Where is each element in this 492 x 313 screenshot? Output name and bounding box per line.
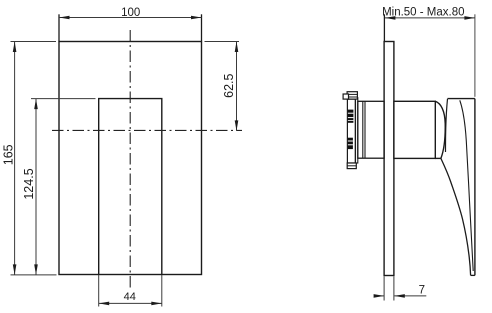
dimension 44 (handle width, bottom) [99, 275, 162, 307]
lever blade upper-left edge [445, 99, 447, 152]
bracket rear knob [343, 94, 348, 99]
bracket top cap [347, 92, 357, 99]
valve body cylinder behind plate [358, 101, 384, 158]
svg-text:165: 165 [1, 144, 15, 165]
mounting bracket bar [347, 99, 355, 163]
lever blade right edge [474, 99, 476, 276]
svg-text:Min.50 - Max.80: Min.50 - Max.80 [382, 6, 464, 18]
dimension 7 (plate thickness) [374, 276, 427, 300]
svg-text:7: 7 [419, 285, 425, 297]
cartridge strip [356, 98, 358, 163]
lever blade bottom tip [471, 274, 475, 276]
wall plate (side view, 7mm thick) [384, 42, 394, 276]
dimension 124.5 (handle height) [22, 99, 95, 275]
dimension 100 (top width) [59, 7, 202, 41]
dimension Min.50 - Max.80 [382, 6, 475, 97]
svg-text:124.5: 124.5 [22, 168, 36, 199]
hub nose bulge [435, 101, 445, 158]
handle plate (front view inner rectangle) [99, 99, 162, 275]
screw detail lower [348, 138, 353, 149]
svg-text:100: 100 [121, 7, 140, 19]
lever blade top edge [448, 98, 475, 100]
horizontal centerline [52, 129, 242, 131]
lever blade lower-left sweep [441, 158, 471, 275]
wall plate (front view outer rectangle) [59, 42, 202, 275]
svg-text:44: 44 [124, 291, 136, 303]
dimension 165 (left height) [1, 42, 56, 275]
screw detail upper [348, 110, 354, 123]
vertical centerline [129, 30, 131, 288]
lever blade crease line [460, 100, 473, 271]
bracket bottom cap [347, 163, 356, 169]
svg-text:62.5: 62.5 [222, 73, 236, 97]
handle hub (escutcheon cap, side view) [394, 101, 435, 158]
dimension 62.5 (top to centerline) [205, 42, 240, 131]
